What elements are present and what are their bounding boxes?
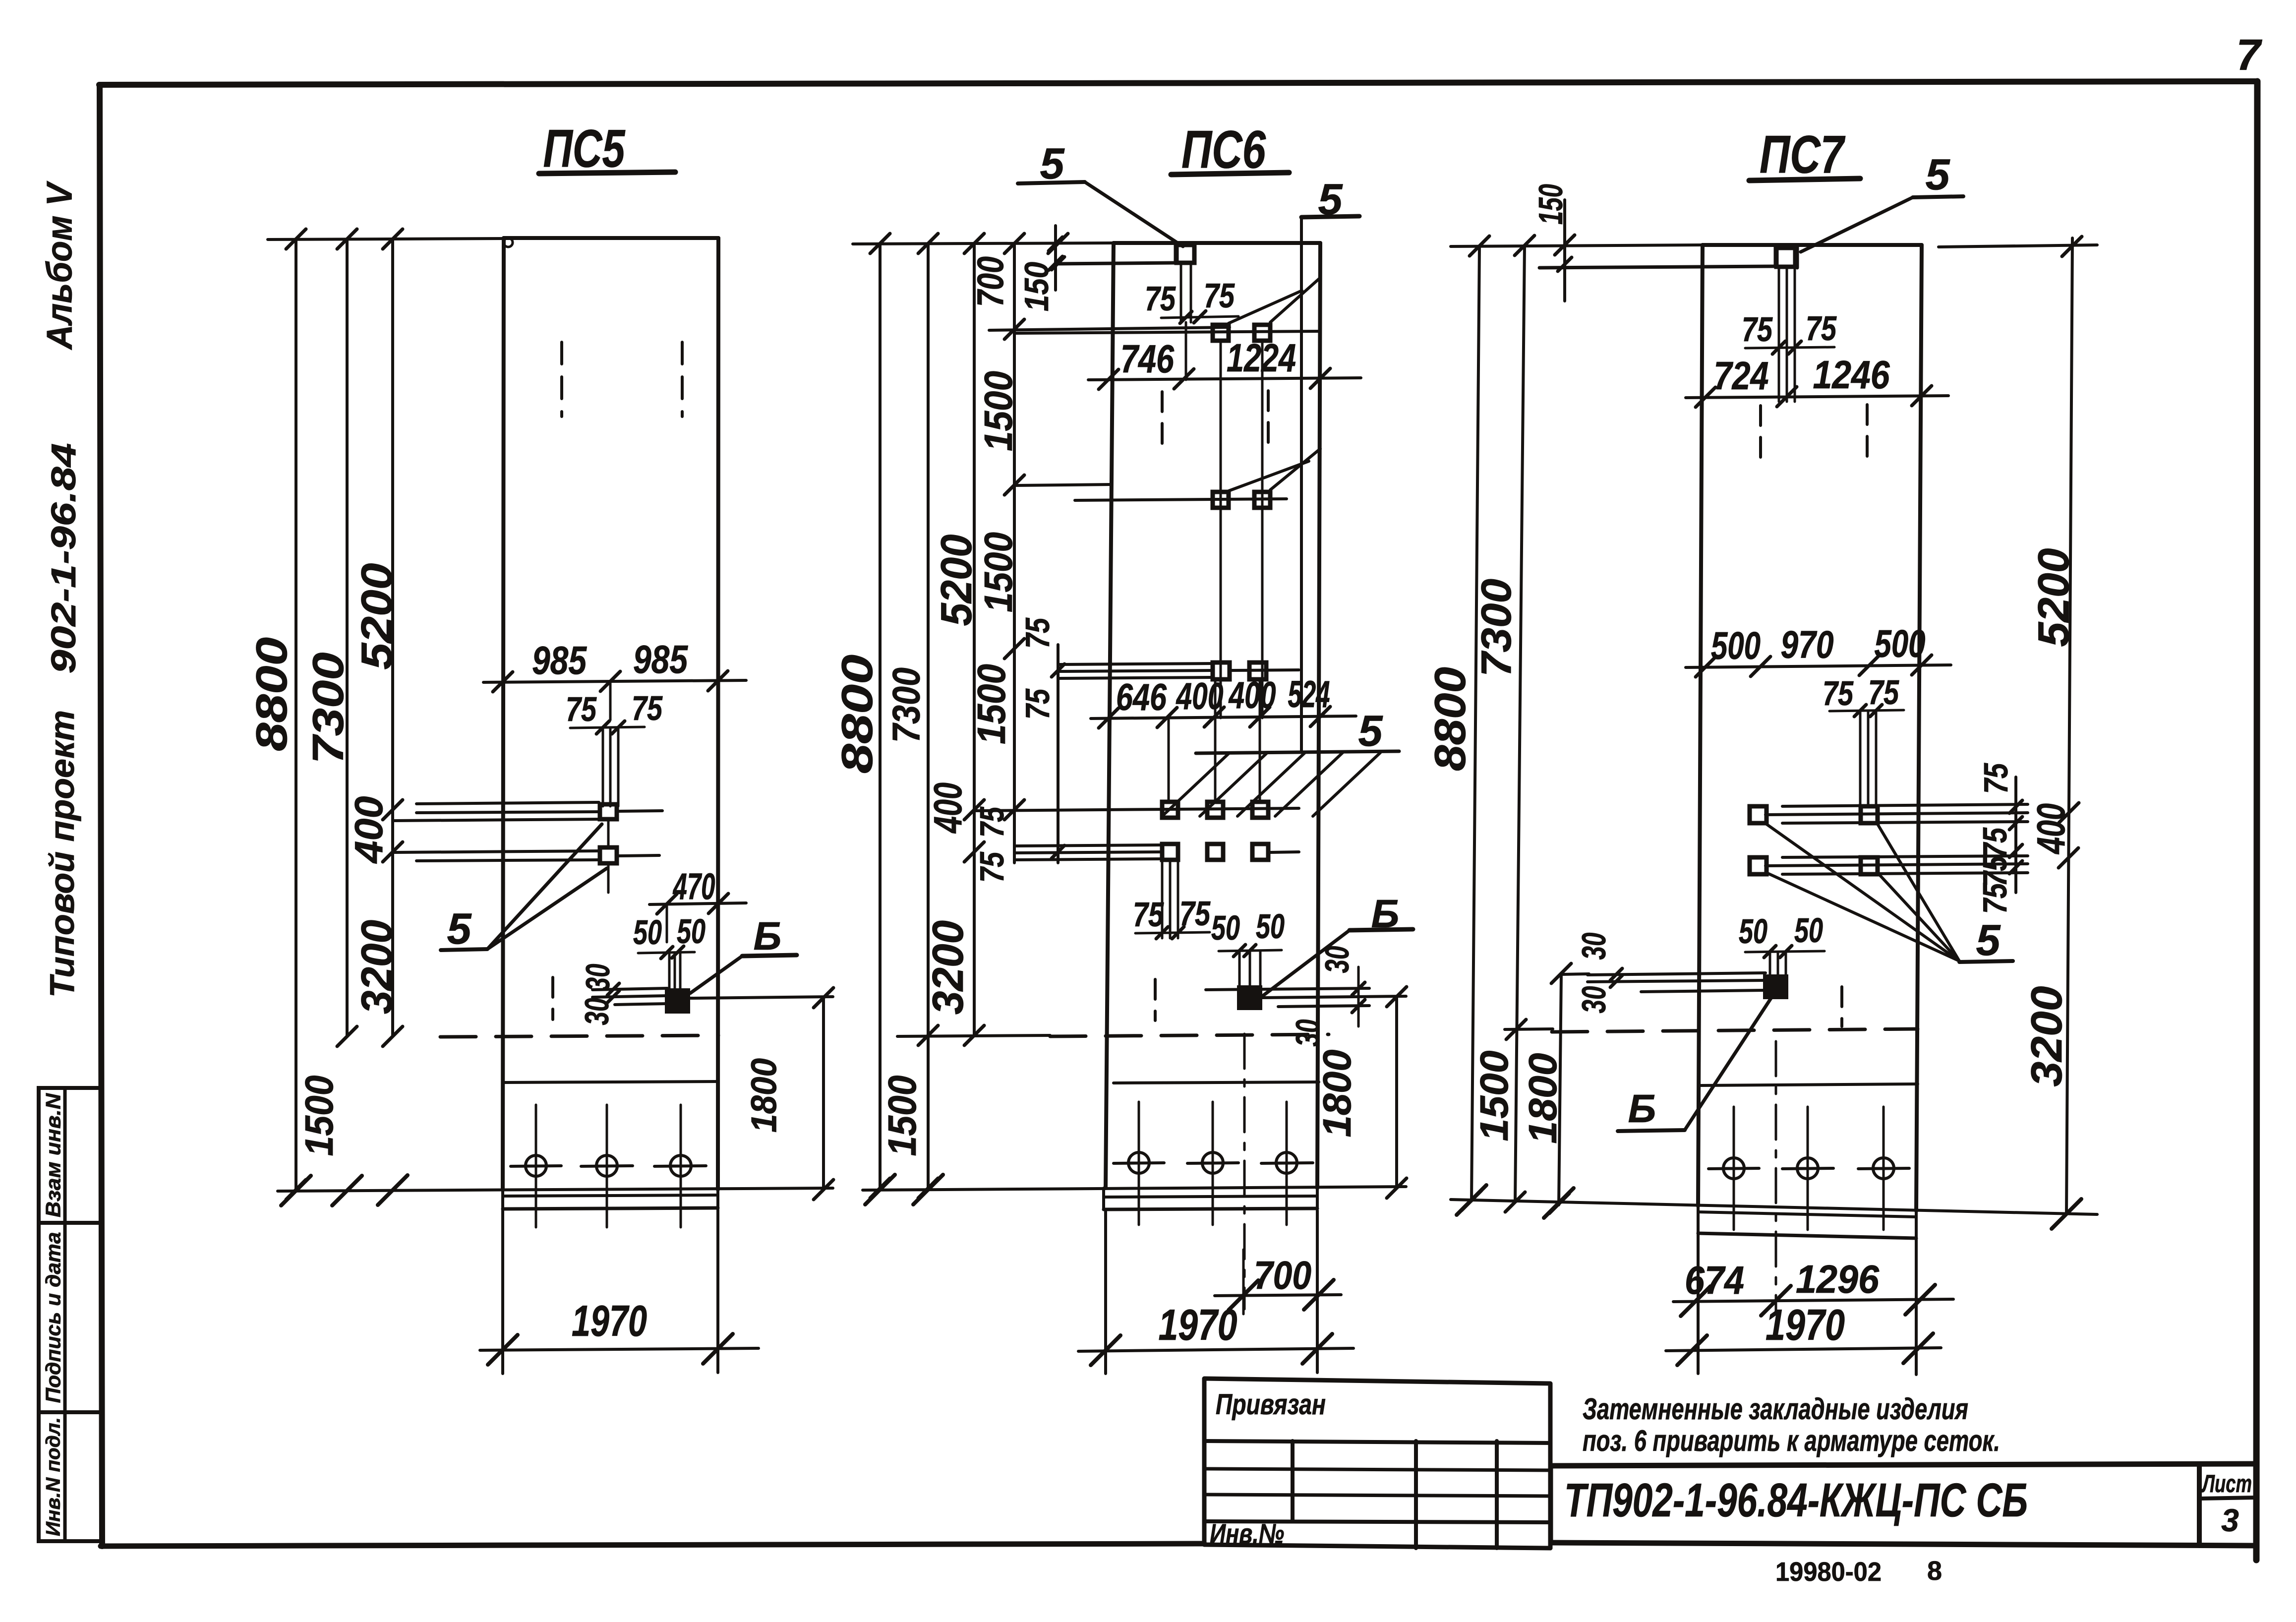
embedded plate top ПС6 xyxy=(1177,245,1194,263)
dim 674 1296 ПС7 xyxy=(1673,1299,1953,1302)
svg-text:7300: 7300 xyxy=(884,667,928,743)
svg-text:1500: 1500 xyxy=(880,1076,924,1156)
dim 724 1246 ПС7 xyxy=(1686,396,1948,398)
top dim line right ПС7 xyxy=(1939,245,2097,247)
svg-text:1500: 1500 xyxy=(976,532,1020,612)
svg-text:Подпись и дата: Подпись и дата xyxy=(41,1232,64,1403)
svg-text:Альбом V: Альбом V xyxy=(40,180,79,351)
svg-text:75: 75 xyxy=(566,690,597,728)
leaders 5 ПС7 xyxy=(1766,824,1959,961)
section dashed line ПС5 xyxy=(440,1035,718,1037)
dim 150 vertical ПС7 xyxy=(1563,200,1566,301)
svg-text:150: 150 xyxy=(1532,184,1570,225)
svg-text:400: 400 xyxy=(1228,674,1276,717)
dim vertical 8800 ПС7 xyxy=(1472,246,1479,1201)
bolt circles ПС5 xyxy=(535,1105,537,1227)
axis verticals below top plate ПС7 xyxy=(1778,268,1780,402)
svg-text:8: 8 xyxy=(1927,1556,1942,1586)
column base plate ПС7 xyxy=(1698,1212,1916,1217)
svg-text:75: 75 xyxy=(1204,276,1235,315)
svg-text:1500: 1500 xyxy=(297,1076,341,1156)
svg-text:30: 30 xyxy=(1575,932,1613,960)
dim line 985 985 ПС5 xyxy=(483,680,746,682)
column base plate ПС5 xyxy=(503,1195,718,1196)
svg-text:75: 75 xyxy=(1977,763,2015,794)
svg-text:3: 3 xyxy=(2221,1502,2239,1538)
frame border right xyxy=(2256,81,2257,1560)
svg-text:30: 30 xyxy=(1318,946,1356,973)
axis vertical center bottom ПС7 xyxy=(1775,1041,1777,1314)
stamp box inner vertical xyxy=(63,1088,67,1541)
stamp table Привязан xyxy=(1204,1379,1550,1548)
notch line 150 ПС6 xyxy=(1056,263,1176,264)
svg-text:7: 7 xyxy=(2237,30,2263,79)
svg-text:902-1-96.84: 902-1-96.84 xyxy=(44,443,83,674)
title block Лист divider xyxy=(2197,1465,2202,1546)
section dashed line ПС6 xyxy=(1050,1034,1329,1036)
svg-text:75: 75 xyxy=(1806,309,1837,348)
stamp box divider 1 xyxy=(39,1221,102,1225)
svg-text:1800: 1800 xyxy=(1315,1050,1359,1138)
svg-text:Инв.N подл.: Инв.N подл. xyxy=(43,1417,64,1536)
embedded plate 5 lower ПС5 xyxy=(600,847,617,863)
svg-text:75: 75 xyxy=(1145,279,1176,318)
svg-text:75: 75 xyxy=(973,851,1011,883)
bolt circles ПС7 xyxy=(1733,1107,1735,1230)
svg-text:50: 50 xyxy=(1211,908,1240,947)
column base plate ПС6 xyxy=(1104,1196,1317,1197)
svg-text:400: 400 xyxy=(347,796,391,864)
section dashed line ПС7 xyxy=(1552,1029,1918,1032)
dim line 3200 level ПС6 xyxy=(897,1035,1050,1036)
bolt circles ПС6 xyxy=(1138,1102,1140,1225)
svg-text:400: 400 xyxy=(2029,803,2073,855)
dim 646 400 400 524 ПС6 xyxy=(1091,716,1356,719)
plate row1 ПС7 xyxy=(1766,813,2028,815)
dashed axis mark near plate ПС7 xyxy=(1840,987,1843,1026)
svg-text:75: 75 xyxy=(1823,674,1854,713)
column ПС6 outline xyxy=(1114,241,1320,245)
svg-text:Лист: Лист xyxy=(2201,1470,2252,1498)
dim vertical 5200-400-3200 right ПС7 xyxy=(2066,238,2072,1214)
inner line ПС6 xyxy=(1114,1082,1319,1083)
svg-text:Затемненные закладные изде: Затемненные закладные изделия xyxy=(1583,1392,1968,1426)
svg-text:5: 5 xyxy=(1976,915,2001,964)
svg-text:7300: 7300 xyxy=(1473,579,1520,677)
svg-text:3200: 3200 xyxy=(2022,986,2071,1086)
plate row2 ПС6 xyxy=(1075,499,1287,500)
svg-text:50: 50 xyxy=(1739,912,1767,951)
svg-text:746: 746 xyxy=(1120,337,1174,381)
svg-text:5: 5 xyxy=(447,904,472,953)
svg-text:1800: 1800 xyxy=(744,1058,784,1133)
stamp box divider 2 xyxy=(39,1410,102,1414)
svg-text:75: 75 xyxy=(632,689,663,727)
svg-text:8800: 8800 xyxy=(247,637,296,751)
svg-text:1500: 1500 xyxy=(969,664,1013,744)
bottom dim line ПС6 xyxy=(863,1187,1406,1190)
svg-text:75: 75 xyxy=(973,806,1011,838)
svg-text:1970: 1970 xyxy=(1159,1300,1237,1349)
svg-text:700: 700 xyxy=(1254,1253,1311,1297)
column ПС7 outline xyxy=(1703,243,1922,247)
axis vertical center bottom ПС6 xyxy=(1243,1034,1246,1309)
svg-text:Привязан: Привязан xyxy=(1216,1388,1326,1421)
svg-text:1970: 1970 xyxy=(572,1296,647,1345)
dim line top ПС6 xyxy=(853,243,1114,244)
title block left vertical xyxy=(1549,1466,1553,1543)
svg-text:75: 75 xyxy=(1976,827,2014,858)
svg-text:ПС5: ПС5 xyxy=(543,119,626,179)
svg-text:5: 5 xyxy=(1358,706,1383,755)
svg-text:1800: 1800 xyxy=(1521,1053,1565,1144)
svg-text:75: 75 xyxy=(1019,617,1057,649)
dim line top ПС5 xyxy=(268,239,504,240)
svg-text:75: 75 xyxy=(1976,883,2014,914)
svg-text:985: 985 xyxy=(633,637,688,681)
notch line 150 ПС7 xyxy=(1539,266,1775,268)
dim 1970 ПС7 xyxy=(1666,1348,1941,1351)
axis verticals ПС6 xyxy=(1180,263,1182,322)
plate row3 ПС6 xyxy=(1058,663,1213,664)
svg-text:8800: 8800 xyxy=(1425,667,1474,771)
dim line 1970 ПС5 xyxy=(480,1348,759,1350)
embedded plate 5 upper ПС5 xyxy=(600,804,617,819)
svg-text:400: 400 xyxy=(926,782,970,834)
svg-text:Б: Б xyxy=(754,914,782,958)
bottom dim line ПС5 xyxy=(278,1188,833,1191)
svg-text:30: 30 xyxy=(1575,986,1613,1013)
plate row2 ПС7 xyxy=(1766,864,2028,866)
svg-text:1500: 1500 xyxy=(976,371,1020,451)
dim vertical 7300 ПС6 xyxy=(927,243,930,1188)
dim vertical 1500 chain ПС6 xyxy=(1013,243,1016,863)
plate row5 ПС6 xyxy=(1014,845,1162,846)
dim line 1500 end ПС6 xyxy=(1014,484,1111,485)
svg-text:75: 75 xyxy=(1133,895,1164,934)
svg-text:7300: 7300 xyxy=(303,652,353,764)
dashed axis marks ПС7 xyxy=(1759,406,1762,464)
svg-text:Б: Б xyxy=(1628,1086,1656,1131)
svg-text:1246: 1246 xyxy=(1813,353,1890,397)
svg-text:19980-02: 19980-02 xyxy=(1775,1557,1882,1587)
dim line dashed level ПС7 xyxy=(1505,1029,1553,1029)
svg-text:470: 470 xyxy=(672,866,715,907)
svg-text:5200: 5200 xyxy=(2029,548,2078,647)
svg-text:50: 50 xyxy=(677,912,706,951)
dashed axis mark near plate ПС6 xyxy=(1154,979,1157,1021)
svg-text:5200: 5200 xyxy=(932,534,981,626)
dim 746 1224 ПС6 xyxy=(1088,378,1361,380)
dim vertical 5200/400/3200 ПС5 xyxy=(391,239,394,1036)
svg-text:1296: 1296 xyxy=(1796,1257,1879,1301)
svg-text:646: 646 xyxy=(1116,676,1167,719)
extension lines bottom ПС5 xyxy=(501,1210,504,1374)
extension lines bottom ПС6 xyxy=(1104,1210,1107,1374)
frame border bottom left part xyxy=(101,1544,1204,1546)
svg-text:5200: 5200 xyxy=(352,563,401,669)
dim 1800 right ПС6 xyxy=(1262,996,1406,998)
inner line ПС7 xyxy=(1701,1084,1918,1085)
embedded plate pos6 dark ПС5 xyxy=(666,989,689,1013)
svg-text:700: 700 xyxy=(970,256,1011,307)
svg-text:970: 970 xyxy=(1781,623,1834,666)
svg-text:1500: 1500 xyxy=(1472,1051,1516,1141)
svg-text:Взам инв.N: Взам инв.N xyxy=(41,1092,64,1217)
svg-text:ТП902-1-96.84-КЖЦ-ПС СБ: ТП902-1-96.84-КЖЦ-ПС СБ xyxy=(1564,1474,2028,1527)
svg-text:985: 985 xyxy=(532,638,587,682)
svg-text:ПС6: ПС6 xyxy=(1181,120,1266,180)
svg-text:524: 524 xyxy=(1288,673,1330,716)
svg-text:75: 75 xyxy=(1976,855,2014,887)
svg-text:75: 75 xyxy=(1868,673,1899,712)
embedded plate pos6 dark ПС7 xyxy=(1764,975,1787,998)
frame border left xyxy=(100,85,102,1546)
svg-text:75: 75 xyxy=(1742,310,1773,349)
svg-text:724: 724 xyxy=(1714,354,1769,398)
title block top line xyxy=(1551,1464,2256,1466)
dim line top ПС7 xyxy=(1451,245,1703,246)
svg-text:8800: 8800 xyxy=(832,655,882,774)
dashed axis marks ПС6 xyxy=(1161,392,1164,449)
dashed axis marks top ПС5 xyxy=(560,342,563,417)
dim 150 vertical ПС6 xyxy=(1054,226,1057,290)
dim 1970 ПС6 xyxy=(1078,1348,1354,1351)
svg-text:3200: 3200 xyxy=(352,920,401,1014)
bottom dim line ПС7 xyxy=(1451,1200,2097,1214)
inner line ПС5 xyxy=(504,1081,718,1082)
dim vertical 7300 ПС7 xyxy=(1515,246,1525,1202)
dim vertical 8800 ПС6 xyxy=(879,243,882,1188)
svg-text:400: 400 xyxy=(1176,675,1223,718)
dim 1800 right ПС5 xyxy=(690,997,833,998)
embedded plate top ПС7 xyxy=(1776,248,1795,267)
svg-text:500: 500 xyxy=(1875,622,1926,665)
dim vertical 5200 ПС6 xyxy=(973,243,976,1035)
dim vertical 8800 ПС5 xyxy=(294,239,297,1190)
svg-text:674: 674 xyxy=(1685,1258,1744,1302)
dim line 700 end ПС6 xyxy=(989,327,1230,330)
Лист box divider xyxy=(2199,1498,2256,1499)
embedded plate rows ПС5 xyxy=(416,802,599,804)
title block bottom line xyxy=(1551,1543,2256,1546)
dim connector 1800 ПС7 xyxy=(1561,974,1589,974)
dashed axis mark near plate ПС5 xyxy=(551,977,554,1020)
svg-text:50: 50 xyxy=(1256,907,1285,946)
embedded plate pos6 dark ПС6 xyxy=(1238,986,1261,1009)
svg-text:50: 50 xyxy=(1794,911,1823,950)
dim 700 ПС6 xyxy=(1215,1295,1341,1296)
svg-text:поз. 6 приварить к арматуре: поз. 6 приварить к арматуре сеток. xyxy=(1583,1424,2000,1457)
frame border top xyxy=(99,81,2257,85)
svg-text:5: 5 xyxy=(1926,150,1950,199)
plate row4 ПС6 xyxy=(974,808,1299,811)
svg-text:1224: 1224 xyxy=(1227,336,1296,380)
svg-text:3200: 3200 xyxy=(923,920,972,1015)
svg-text:1970: 1970 xyxy=(1766,1300,1845,1349)
svg-text:Типовой проект: Типовой проект xyxy=(43,710,81,998)
extension lines bottom ПС7 xyxy=(1697,1234,1700,1374)
column ПС5 outline xyxy=(504,236,718,240)
dim 500 970 500 ПС7 xyxy=(1686,665,1951,667)
svg-text:30: 30 xyxy=(579,963,617,991)
stamp table bottom edge xyxy=(1204,1545,1550,1548)
svg-text:ПС7: ПС7 xyxy=(1760,124,1846,184)
dim vertical 7300 ПС5 xyxy=(346,239,349,1036)
hatch ПС6 xyxy=(1162,753,1230,816)
svg-text:75: 75 xyxy=(1019,688,1057,720)
dim vertical 75 dims ПС7 xyxy=(2014,777,2017,893)
svg-text:50: 50 xyxy=(633,913,662,952)
dim vertical 75 ПС6 xyxy=(1057,645,1060,863)
svg-text:500: 500 xyxy=(1711,624,1761,667)
plate row1 ПС6 xyxy=(1014,331,1320,333)
stamp box outline bottom left xyxy=(39,1088,102,1541)
dim vertical 1800 ПС7 xyxy=(1559,973,1561,1205)
